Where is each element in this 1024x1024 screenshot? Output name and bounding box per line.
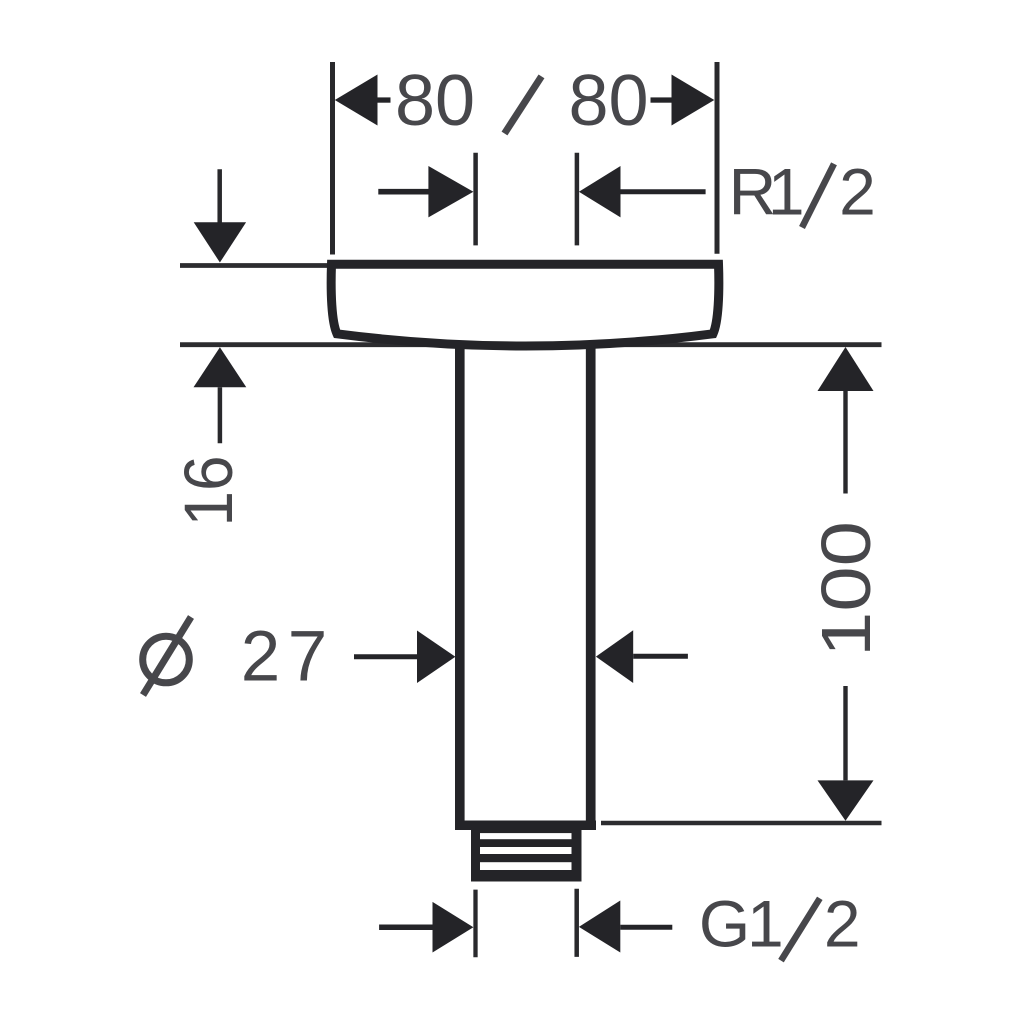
pipe end extension line: [601, 821, 882, 825]
dia 27 left arrow: [354, 631, 455, 684]
svg-text:2: 2: [241, 617, 281, 696]
svg-text:7: 7: [288, 617, 328, 696]
label G1/2: [699, 887, 861, 961]
label 80 right: [568, 61, 648, 141]
G1/2 tick right: [574, 889, 579, 957]
pipe end bar: [455, 821, 596, 831]
dia 27 symbol: [143, 617, 191, 695]
svg-text:2: 2: [839, 154, 876, 228]
label 27: [241, 617, 328, 696]
R1/2 right arrow: [579, 166, 706, 217]
extension line left 80/80: [330, 62, 335, 255]
dimension 80/80 right arrow: [651, 75, 715, 126]
dim 100 lower arrow (down): [818, 686, 874, 821]
pipe right wall: [586, 342, 596, 825]
label 16 (rotated): [170, 456, 247, 527]
thread block: [471, 830, 582, 882]
R1/2 tick right: [575, 153, 580, 246]
svg-text:1: 1: [747, 887, 784, 961]
dim 16 upper arrow (down): [194, 169, 246, 262]
extension line right 80/80: [715, 62, 720, 254]
svg-text:2: 2: [824, 887, 861, 961]
ceiling line lower: [180, 342, 882, 347]
R1/2 tick left: [473, 153, 478, 246]
label 80 left: [395, 61, 475, 141]
R1/2 left arrow: [378, 166, 473, 217]
dia 27 right arrow: [596, 630, 688, 683]
pipe left wall: [455, 342, 465, 825]
slash of 80/80: [505, 76, 542, 133]
svg-text:80: 80: [395, 61, 475, 141]
label 100 (rotated): [807, 521, 885, 657]
ceiling line upper: [180, 263, 334, 268]
escutcheon plate: [331, 264, 719, 346]
svg-text:16: 16: [170, 456, 247, 527]
dimension 80/80 left arrow: [335, 75, 391, 126]
label R1/2: [729, 154, 876, 228]
svg-text:80: 80: [568, 61, 648, 141]
dim 16 lower arrow (up): [194, 347, 247, 443]
svg-text:100: 100: [807, 521, 885, 657]
G1/2 right arrow: [579, 901, 672, 953]
svg-text:G: G: [699, 887, 750, 961]
svg-text:1: 1: [768, 154, 805, 228]
dim 100 upper arrow (up): [818, 347, 874, 494]
G1/2 left arrow: [379, 902, 473, 953]
G1/2 tick left: [473, 890, 477, 958]
